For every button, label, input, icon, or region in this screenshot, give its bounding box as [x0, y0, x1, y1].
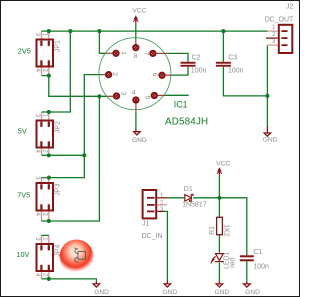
svg-text:GND: GND [163, 289, 178, 296]
svg-text:1N5817: 1N5817 [182, 202, 207, 209]
svg-text:GND: GND [215, 289, 230, 296]
svg-text:GND: GND [263, 136, 278, 143]
svg-text:10V: 10V [16, 250, 29, 259]
svg-text:J1: J1 [142, 221, 150, 228]
svg-text:JP2: JP2 [54, 121, 61, 133]
svg-text:C1: C1 [253, 249, 262, 256]
svg-text:1: 1 [120, 51, 127, 55]
svg-text:VCC: VCC [216, 160, 230, 167]
svg-text:C3: C3 [228, 54, 237, 61]
svg-text:100n: 100n [191, 67, 207, 74]
svg-text:5V: 5V [18, 126, 27, 135]
svg-text:GND: GND [94, 289, 109, 296]
svg-text:R1: R1 [209, 226, 216, 235]
svg-text:IC1: IC1 [174, 100, 188, 110]
svg-text:5: 5 [143, 96, 150, 100]
svg-text:6: 6 [151, 73, 158, 77]
svg-text:4: 4 [132, 90, 136, 97]
svg-text:AD584JH: AD584JH [165, 116, 208, 127]
svg-text:JP3: JP3 [54, 184, 61, 196]
svg-text:100n: 100n [253, 263, 269, 270]
svg-text:2: 2 [111, 72, 118, 76]
svg-text:D1: D1 [184, 186, 193, 193]
svg-text:100n: 100n [228, 67, 244, 74]
svg-text:C2: C2 [192, 54, 201, 61]
svg-text:7: 7 [143, 52, 150, 56]
svg-text:J2: J2 [286, 3, 294, 10]
svg-text:red: red [229, 258, 236, 268]
svg-text:8: 8 [134, 53, 138, 60]
svg-text:JP4: JP4 [54, 245, 61, 257]
svg-text:DC_OUT: DC_OUT [265, 17, 295, 24]
svg-text:GND: GND [245, 289, 260, 296]
svg-text:1K2: 1K2 [222, 224, 229, 237]
svg-text:VCC: VCC [132, 8, 146, 15]
svg-text:JP1: JP1 [54, 40, 61, 52]
svg-text:DC_IN: DC_IN [142, 233, 163, 240]
svg-text:7V5: 7V5 [17, 190, 30, 199]
svg-text:3: 3 [120, 92, 127, 96]
svg-text:GND: GND [132, 137, 147, 144]
svg-text:2V5: 2V5 [18, 46, 31, 55]
